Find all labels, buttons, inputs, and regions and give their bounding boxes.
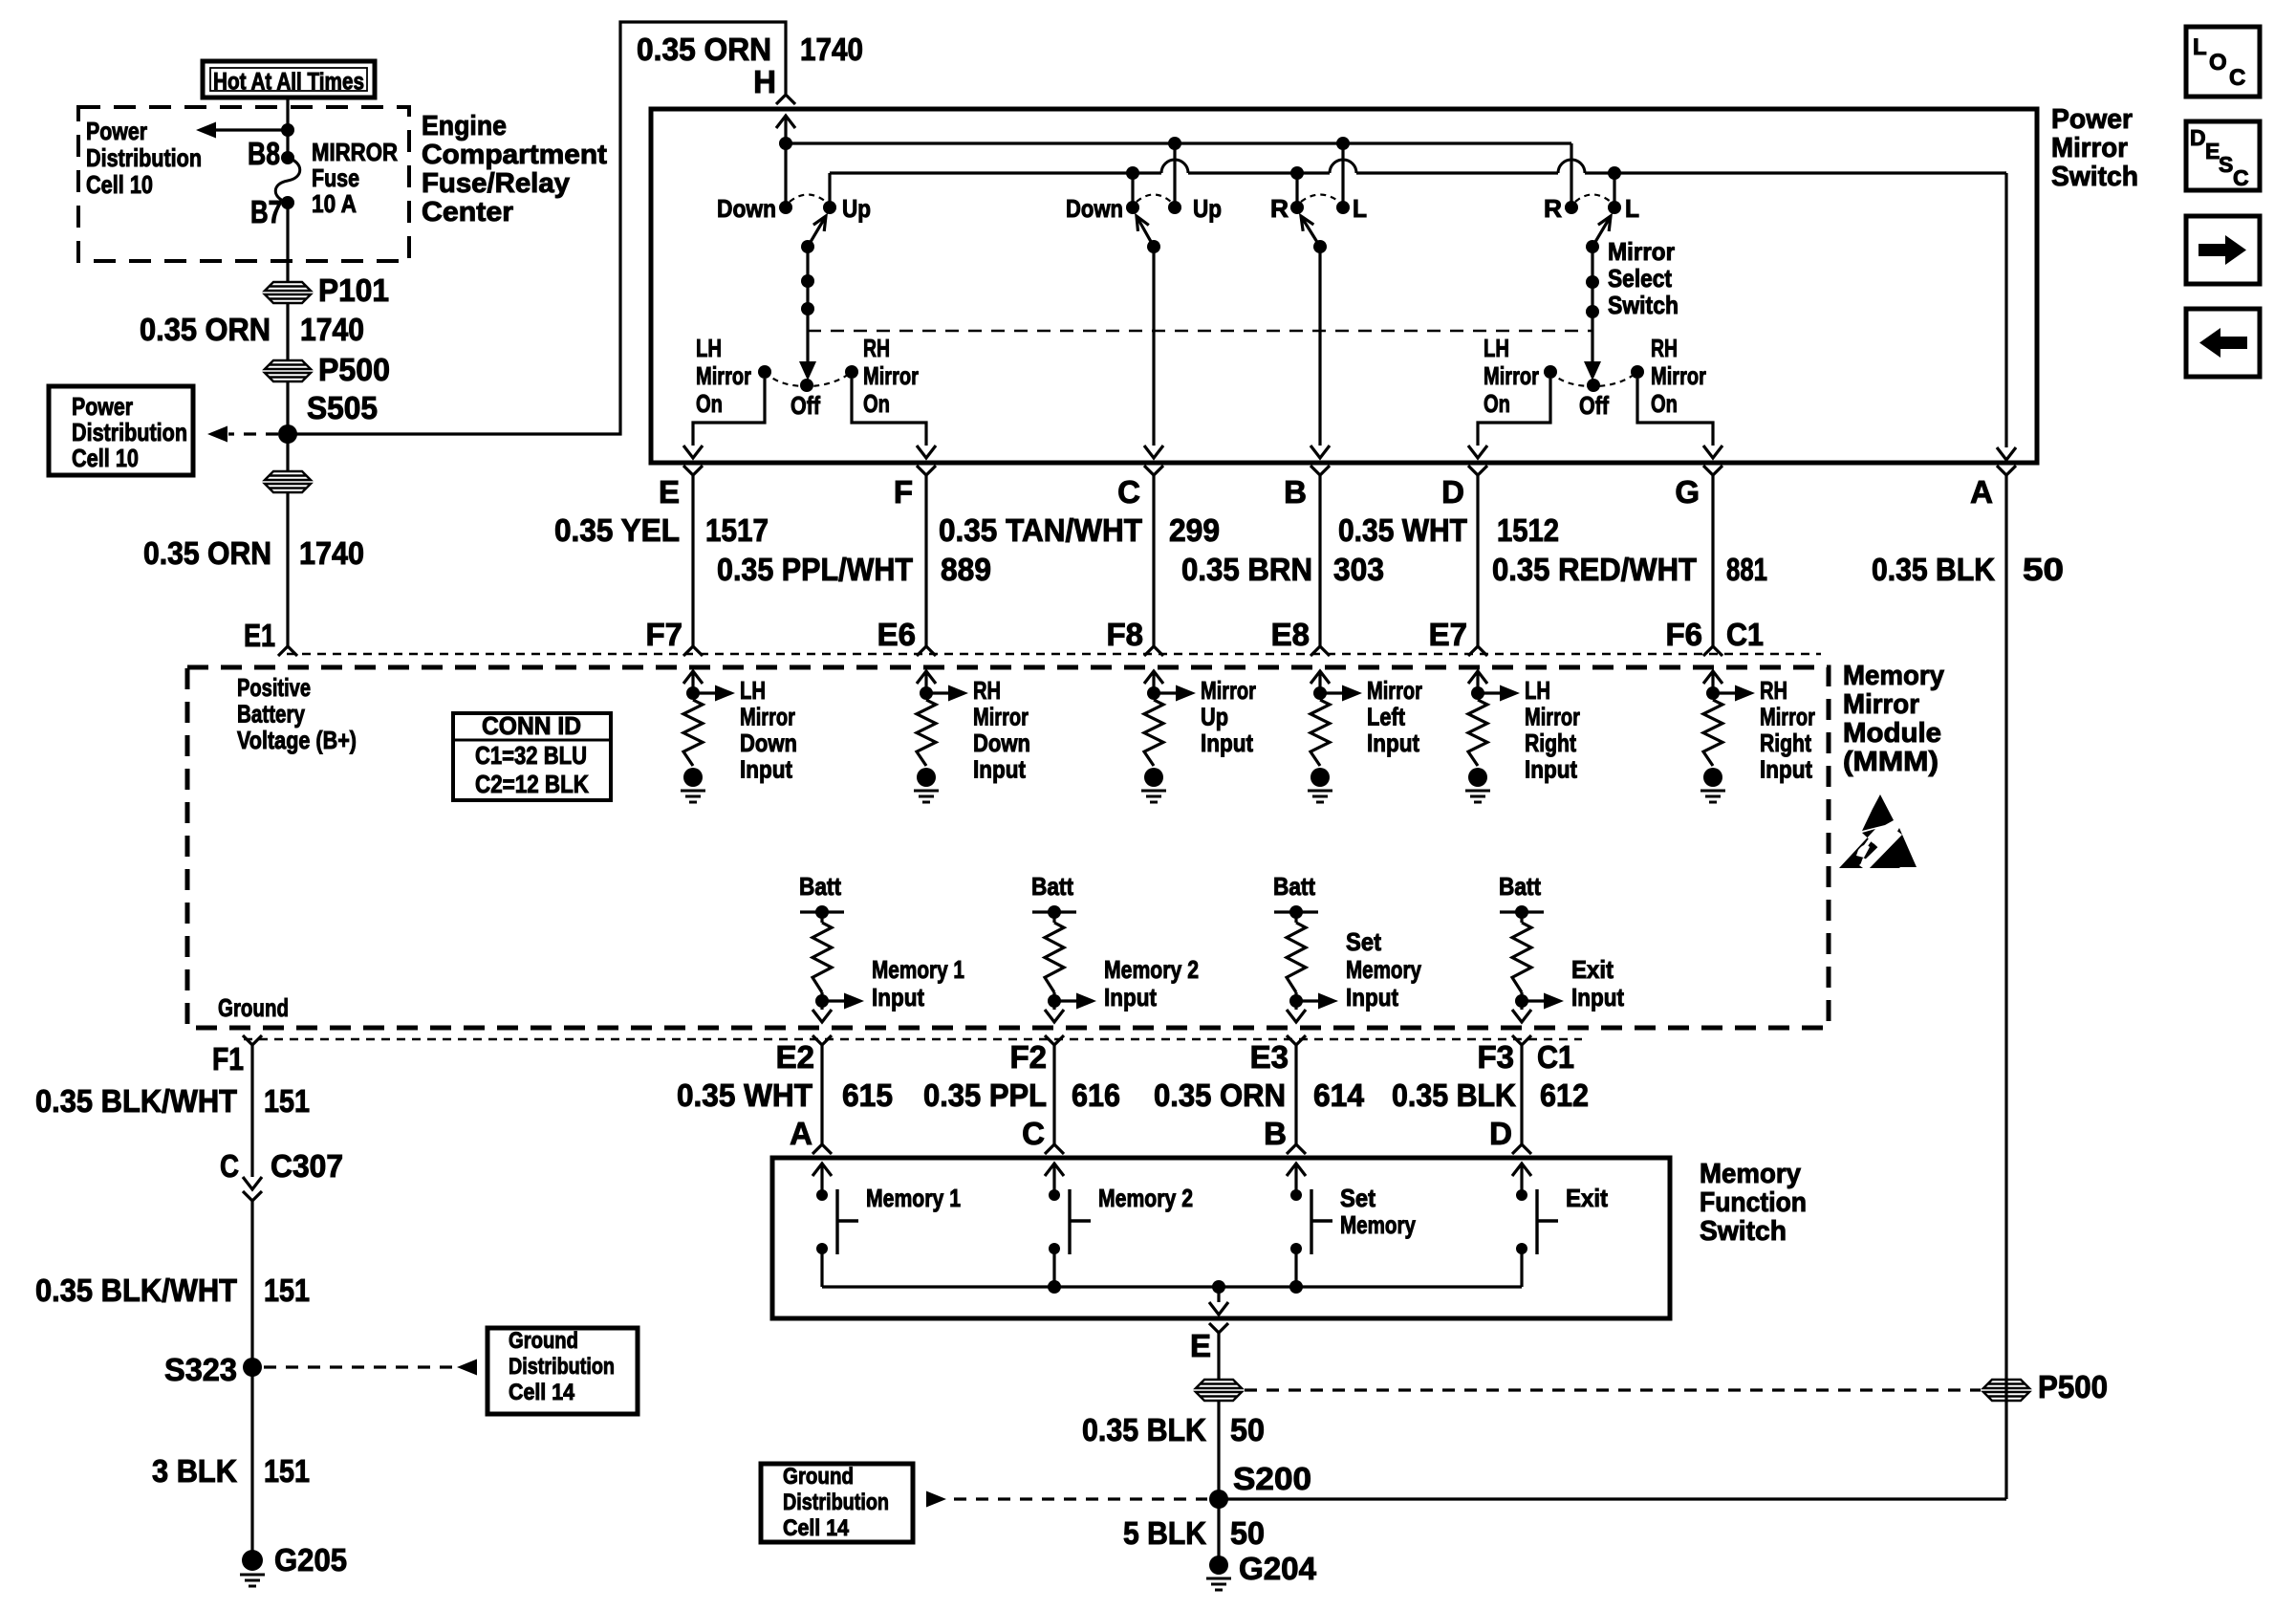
svg-text:RH: RH xyxy=(1760,676,1787,705)
wire wiper2 to pin C xyxy=(1152,247,1155,446)
ground G205 xyxy=(240,1550,265,1586)
pin C chevron xyxy=(1144,466,1163,475)
svg-text:R: R xyxy=(1270,194,1289,223)
input LH Mirror Down Input xyxy=(683,671,703,684)
svg-text:612: 612 xyxy=(1540,1077,1589,1113)
LOC nav box xyxy=(2186,27,2260,97)
pin G chevron xyxy=(1703,466,1722,475)
svg-text:C1=32 BLU: C1=32 BLU xyxy=(475,741,587,770)
dashed wire box to S200 xyxy=(954,1497,1207,1500)
svg-text:On: On xyxy=(1484,389,1510,418)
wire rail1 to L contact (B pair) xyxy=(1341,143,1344,207)
svg-text:1740: 1740 xyxy=(300,312,364,347)
svg-text:E: E xyxy=(1190,1328,1211,1363)
wire pin C to MMM xyxy=(1152,475,1155,646)
svg-text:C1: C1 xyxy=(1537,1039,1574,1075)
svg-text:0.35 BLK: 0.35 BLK xyxy=(1872,552,1995,587)
svg-text:Left: Left xyxy=(1367,703,1405,731)
svg-text:Mirror: Mirror xyxy=(1367,676,1422,705)
svg-text:50: 50 xyxy=(2023,552,2064,587)
fuse MIRROR 10A xyxy=(275,158,300,203)
junction H rail xyxy=(779,137,792,150)
svg-text:On: On xyxy=(863,389,890,418)
svg-text:Batt: Batt xyxy=(1499,872,1541,901)
svg-text:616: 616 xyxy=(1072,1077,1120,1113)
svg-text:Cell 10: Cell 10 xyxy=(86,170,153,199)
svg-text:303: 303 xyxy=(1333,552,1384,587)
connector P101 xyxy=(265,282,311,303)
splice S323 xyxy=(243,1358,262,1377)
internal ground (RH Mirror Down Input) xyxy=(914,768,939,802)
svg-text:D: D xyxy=(2190,125,2206,150)
wire from Hot At All Times to fuse B8 xyxy=(286,98,289,158)
svg-text:O: O xyxy=(2209,50,2227,76)
svg-text:Input: Input xyxy=(1367,729,1419,757)
svg-text:Memory 1: Memory 1 xyxy=(866,1184,961,1212)
svg-text:Input: Input xyxy=(1346,983,1398,1012)
svg-text:Distribution: Distribution xyxy=(72,418,187,446)
svg-text:Ground: Ground xyxy=(509,1328,578,1354)
pushbutton Memory 2 xyxy=(1045,1164,1064,1176)
svg-text:Cell 14: Cell 14 xyxy=(783,1515,850,1541)
svg-text:Mirror: Mirror xyxy=(2051,133,2128,163)
svg-text:RH: RH xyxy=(1651,334,1678,362)
wire E3 to B xyxy=(1294,1045,1297,1144)
svg-text:C: C xyxy=(2229,65,2245,91)
svg-text:Switch: Switch xyxy=(1608,291,1679,319)
contact R3 xyxy=(1290,201,1304,214)
arrow from Ground Distribution box (right) xyxy=(926,1491,946,1508)
svg-text:P500: P500 xyxy=(2038,1369,2108,1404)
contact Up2 xyxy=(1168,201,1181,214)
svg-text:0.35 BLK: 0.35 BLK xyxy=(1082,1412,1206,1447)
svg-text:Input: Input xyxy=(973,755,1026,784)
terminal B7 xyxy=(281,196,294,209)
wire C307 to S323 xyxy=(250,1201,253,1367)
svg-text:50: 50 xyxy=(1230,1515,1265,1551)
wiper arrow to Off (1) xyxy=(799,361,816,381)
arrow into pin D xyxy=(1468,446,1487,458)
svg-text:MIRROR: MIRROR xyxy=(312,138,398,166)
pin F2 chevron xyxy=(1045,1035,1064,1045)
svg-text:Power: Power xyxy=(86,117,147,145)
svg-text:Distribution: Distribution xyxy=(509,1354,615,1380)
svg-text:Module: Module xyxy=(1843,718,1941,749)
ground G204 xyxy=(1206,1556,1231,1590)
svg-text:614: 614 xyxy=(1313,1077,1365,1113)
svg-text:Up: Up xyxy=(1193,194,1222,223)
pin F3 chevron xyxy=(1512,1035,1531,1045)
hop over vertical at 1229 xyxy=(1161,160,1188,173)
svg-text:0.35 BLK/WHT: 0.35 BLK/WHT xyxy=(35,1083,237,1119)
inline connector C307 xyxy=(243,1177,262,1189)
svg-text:Function: Function xyxy=(1700,1187,1807,1218)
internal ground (Mirror Left Input) xyxy=(1308,768,1332,802)
wire 0.35 ORN 1740 (P101-P500) xyxy=(286,303,289,360)
svg-text:Off: Off xyxy=(791,391,820,420)
svg-text:Mirror: Mirror xyxy=(1608,237,1675,266)
svg-text:10 A: 10 A xyxy=(312,189,357,218)
dashed wire to P500 splice reference xyxy=(1245,1388,1981,1391)
svg-text:0.35 WHT: 0.35 WHT xyxy=(677,1077,812,1113)
svg-text:Voltage (B+): Voltage (B+) xyxy=(237,726,357,754)
svg-text:E7: E7 xyxy=(1429,617,1467,652)
wiper arm 3 xyxy=(1301,216,1320,247)
svg-text:G204: G204 xyxy=(1239,1551,1317,1586)
svg-text:LH: LH xyxy=(1484,334,1509,362)
input Mirror Left Input xyxy=(1310,671,1330,684)
dashed wire S323 to Ground Distribution Cell 14 xyxy=(264,1365,453,1368)
svg-text:1512: 1512 xyxy=(1497,512,1559,548)
pin F1 chevron xyxy=(243,1035,262,1045)
contact Down1 xyxy=(779,201,792,214)
wiper arrow to Off (2) xyxy=(1584,361,1601,381)
wire rail2 down to pin A xyxy=(2004,173,2007,447)
contact Off (2) xyxy=(1587,379,1600,392)
svg-text:Down: Down xyxy=(717,194,776,223)
wiper arm 4 (mirror select) xyxy=(1592,216,1611,247)
wire rail1 down to R contact of mirror select xyxy=(1570,143,1572,207)
common bus of memory function switch xyxy=(822,1285,1522,1288)
svg-text:F3: F3 xyxy=(1477,1039,1514,1075)
junction rail2 to Down2 xyxy=(1126,166,1139,180)
svg-text:151: 151 xyxy=(264,1083,310,1119)
svg-text:F1: F1 xyxy=(212,1041,244,1077)
svg-text:Mirror: Mirror xyxy=(1201,676,1256,705)
MMM connector line (bottom) xyxy=(244,1038,1582,1040)
wire P500 to S505 xyxy=(286,381,289,471)
svg-text:R: R xyxy=(1544,194,1562,223)
svg-text:Batt: Batt xyxy=(1273,872,1315,901)
junction rail2 to R3 xyxy=(1290,166,1304,180)
wire S505 up and over to pin H xyxy=(288,22,786,434)
svg-text:0.35 ORN: 0.35 ORN xyxy=(1154,1077,1286,1113)
junction rail2 to L4 xyxy=(1608,166,1621,180)
pin F8 chevron xyxy=(1144,646,1163,656)
svg-text:Set: Set xyxy=(1346,927,1381,956)
svg-text:D: D xyxy=(1441,474,1464,510)
svg-text:Power: Power xyxy=(2051,104,2133,135)
pin C chevron xyxy=(1045,1144,1064,1154)
svg-text:B8: B8 xyxy=(248,136,280,171)
wire F2 to C xyxy=(1052,1045,1055,1144)
wiper arm 1 xyxy=(808,216,826,247)
pin E chevron xyxy=(683,466,703,475)
svg-text:Power: Power xyxy=(72,392,133,421)
svg-text:CONN ID: CONN ID xyxy=(482,711,581,740)
svg-text:Switch: Switch xyxy=(1700,1216,1787,1247)
svg-text:Hot At All Times: Hot At All Times xyxy=(213,69,364,96)
pin E8 chevron xyxy=(1310,646,1330,656)
svg-text:Input: Input xyxy=(1525,755,1577,784)
svg-text:Up: Up xyxy=(1201,703,1228,731)
svg-text:C: C xyxy=(1022,1116,1045,1151)
pin E7 chevron xyxy=(1468,646,1487,656)
svg-text:C: C xyxy=(220,1148,239,1184)
svg-text:Mirror: Mirror xyxy=(1760,703,1815,731)
connector P500 (on E wire) xyxy=(1196,1380,1242,1401)
arrow into pin C xyxy=(1144,446,1163,458)
wire pin D to MMM xyxy=(1476,475,1479,646)
svg-text:Cell 10: Cell 10 xyxy=(72,444,139,472)
svg-text:RH: RH xyxy=(863,334,890,362)
splice S200 xyxy=(1209,1490,1228,1509)
svg-text:LH: LH xyxy=(740,676,766,705)
svg-text:881: 881 xyxy=(1726,552,1767,587)
svg-text:F2: F2 xyxy=(1009,1039,1047,1075)
wire LH1 to pin E xyxy=(693,379,765,446)
svg-text:Mirror: Mirror xyxy=(863,361,919,390)
contact R4 xyxy=(1565,201,1578,214)
box Ground Distribution Cell 14 (right) xyxy=(761,1464,913,1542)
ESD sensitive device symbol xyxy=(1839,794,1917,871)
pin H feed arrow xyxy=(776,116,795,128)
svg-text:Memory: Memory xyxy=(1843,661,1944,691)
svg-text:Down: Down xyxy=(1066,194,1123,223)
internal ground (Mirror Up Input) xyxy=(1141,768,1166,802)
wire RH1 to pin F xyxy=(852,379,926,446)
svg-text:S505: S505 xyxy=(307,390,378,425)
wire rail2 to Up1 contact xyxy=(828,173,831,207)
pin B chevron xyxy=(1310,466,1330,475)
pin E6 chevron xyxy=(917,646,936,656)
pushbutton Set Memory xyxy=(1287,1164,1306,1176)
svg-text:E2: E2 xyxy=(776,1039,814,1075)
svg-text:Center: Center xyxy=(422,197,513,228)
svg-text:Mirror: Mirror xyxy=(1484,361,1539,390)
svg-text:F7: F7 xyxy=(645,617,682,652)
svg-text:0.35 ORN: 0.35 ORN xyxy=(637,32,771,67)
svg-text:E8: E8 xyxy=(1271,617,1310,652)
wire pin E to MMM xyxy=(691,475,694,646)
pin F6 chevron xyxy=(1703,646,1722,656)
internal ground (RH Mirror Right Input) xyxy=(1700,768,1725,802)
wire pin B to MMM xyxy=(1318,475,1321,646)
svg-text:5 BLK: 5 BLK xyxy=(1123,1515,1206,1551)
Power Mirror Switch box xyxy=(651,109,2037,463)
splice S505 xyxy=(278,424,297,444)
junction rail1 to Up2 xyxy=(1168,137,1181,150)
CONN ID table xyxy=(453,713,611,800)
arrow to Power Distribution Cell 10 box xyxy=(207,426,227,443)
svg-text:0.35 BLK/WHT: 0.35 BLK/WHT xyxy=(35,1273,237,1308)
Memory Mirror Module box xyxy=(187,667,1829,1028)
svg-text:Mirror: Mirror xyxy=(696,361,751,390)
svg-text:Compartment: Compartment xyxy=(422,140,607,170)
svg-text:0.35 BLK: 0.35 BLK xyxy=(1392,1077,1516,1113)
pin H chevron xyxy=(776,95,795,104)
input RH Mirror Right Input xyxy=(1703,671,1722,684)
svg-text:1740: 1740 xyxy=(299,535,364,571)
svg-text:615: 615 xyxy=(842,1077,893,1113)
wire pin G to MMM xyxy=(1711,475,1714,646)
svg-text:Mirror: Mirror xyxy=(1651,361,1706,390)
svg-text:Positive: Positive xyxy=(237,673,311,702)
arrow into pin G xyxy=(1703,446,1722,458)
contact L3 xyxy=(1336,201,1350,214)
svg-text:0.35 PPL/WHT: 0.35 PPL/WHT xyxy=(717,552,913,587)
svg-text:Memory: Memory xyxy=(1346,955,1421,984)
wire F1 0.35 BLK/WHT 151 xyxy=(250,1045,253,1177)
wire rail1 to Down1 xyxy=(784,143,787,207)
svg-text:LH: LH xyxy=(1525,676,1550,705)
svg-text:151: 151 xyxy=(264,1453,310,1489)
svg-text:Set: Set xyxy=(1340,1184,1375,1212)
DESC nav box xyxy=(2186,121,2260,190)
svg-text:299: 299 xyxy=(1169,512,1220,548)
svg-text:Input: Input xyxy=(1760,755,1812,784)
svg-text:151: 151 xyxy=(264,1273,310,1308)
svg-text:Right: Right xyxy=(1525,729,1576,757)
wire pin A 0.35 BLK 50 down right side xyxy=(2004,475,2007,1499)
svg-text:S323: S323 xyxy=(164,1352,237,1387)
mechanical link dashed line xyxy=(808,330,1592,332)
svg-text:RH: RH xyxy=(973,676,1001,705)
svg-text:On: On xyxy=(1651,389,1678,418)
svg-text:1517: 1517 xyxy=(705,512,769,548)
svg-text:On: On xyxy=(696,389,723,418)
svg-text:A: A xyxy=(790,1116,812,1151)
pin A chevron xyxy=(812,1144,832,1154)
arrow into pin E (out) xyxy=(1209,1302,1228,1315)
svg-text:889: 889 xyxy=(941,552,991,587)
wire A joins S200 xyxy=(1219,1497,2006,1500)
svg-text:Exit: Exit xyxy=(1566,1184,1608,1212)
svg-text:Exit: Exit xyxy=(1571,955,1614,984)
arrow into pin A xyxy=(1997,447,2016,460)
wire to power distribution arrow xyxy=(215,128,288,131)
svg-text:C307: C307 xyxy=(271,1148,343,1184)
svg-text:3 BLK: 3 BLK xyxy=(152,1453,237,1489)
pin F chevron xyxy=(917,466,936,475)
svg-text:0.35 WHT: 0.35 WHT xyxy=(1338,512,1467,548)
svg-text:Mirror: Mirror xyxy=(973,703,1029,731)
dashed wire S505 to Power Distribution Cell 10 xyxy=(228,432,278,435)
wire S200 to G204 5 BLK 50 xyxy=(1217,1499,1220,1556)
svg-text:H: H xyxy=(753,64,776,99)
svg-text:G: G xyxy=(1675,474,1700,510)
svg-text:Memory: Memory xyxy=(1700,1159,1801,1189)
svg-text:Ground: Ground xyxy=(783,1464,854,1490)
svg-text:B7: B7 xyxy=(250,194,282,229)
svg-text:0.35 ORN: 0.35 ORN xyxy=(140,312,271,347)
terminal B8 xyxy=(281,151,294,164)
svg-text:E: E xyxy=(659,474,680,510)
connector P500 (lower) xyxy=(265,471,311,492)
wire LH2 to pin D xyxy=(1478,379,1550,446)
svg-text:Memory: Memory xyxy=(1340,1210,1416,1239)
wire bus to pin E xyxy=(1217,1287,1220,1302)
svg-text:Engine: Engine xyxy=(422,111,507,141)
pushbutton Exit xyxy=(1512,1164,1531,1176)
box Ground Distribution Cell 14 (left) xyxy=(487,1328,638,1414)
svg-text:Memory 2: Memory 2 xyxy=(1104,955,1199,984)
contact RH Mirror On (1) xyxy=(845,365,858,379)
svg-text:0.35 ORN: 0.35 ORN xyxy=(143,535,271,571)
arrow at Ground Distribution box xyxy=(457,1360,477,1376)
svg-text:(MMM): (MMM) xyxy=(1843,747,1939,777)
svg-text:Input: Input xyxy=(1571,983,1624,1012)
contact RH Mirror On (2) xyxy=(1631,365,1644,379)
svg-text:C2=12 BLK: C2=12 BLK xyxy=(475,770,589,798)
svg-text:1740: 1740 xyxy=(800,32,863,67)
svg-text:0.35 PPL: 0.35 PPL xyxy=(923,1077,1047,1113)
Memory Function Switch box xyxy=(772,1158,1670,1318)
svg-text:L: L xyxy=(1625,194,1639,223)
next-page arrow box xyxy=(2186,216,2260,284)
wire E2 to A xyxy=(820,1045,823,1144)
input RH Mirror Down Input xyxy=(917,671,936,684)
wire pin E to P500 xyxy=(1217,1333,1220,1380)
pushbutton Memory 1 xyxy=(812,1164,832,1176)
svg-text:S: S xyxy=(2219,152,2233,177)
svg-text:Switch: Switch xyxy=(2051,162,2138,192)
svg-text:P500: P500 xyxy=(318,352,390,387)
svg-text:Down: Down xyxy=(740,729,797,757)
wire rail2 to R contact (B pair) xyxy=(1295,173,1298,207)
junction in fuse center xyxy=(281,123,294,137)
svg-text:Input: Input xyxy=(740,755,792,784)
hop over vertical at 1405 xyxy=(1330,160,1356,173)
junction rail1 to L3 xyxy=(1336,137,1350,150)
svg-text:Off: Off xyxy=(1579,391,1609,420)
pin E chevron (memory switch) xyxy=(1209,1323,1228,1333)
hop over vertical at 1644 xyxy=(1558,160,1585,173)
contact LH Mirror On (2) xyxy=(1544,365,1557,379)
svg-text:0.35 TAN/WHT: 0.35 TAN/WHT xyxy=(939,512,1142,548)
wire B7 to P101 xyxy=(286,203,289,282)
pin A chevron xyxy=(1997,466,2016,475)
svg-text:A: A xyxy=(1970,474,1993,510)
svg-text:Mirror: Mirror xyxy=(1525,703,1580,731)
wire rail1 to Up contact (C pair) xyxy=(1173,143,1176,207)
svg-text:E6: E6 xyxy=(877,617,916,652)
box Power Distribution Cell 10 xyxy=(49,386,193,475)
wiper arm 2 xyxy=(1137,216,1154,247)
wire RH2 to pin G xyxy=(1637,379,1713,446)
wire S323 to G205 3 BLK 151 xyxy=(250,1367,253,1552)
svg-text:F6: F6 xyxy=(1665,617,1702,652)
pin E2 chevron xyxy=(812,1035,832,1045)
svg-text:L: L xyxy=(2193,34,2207,60)
svg-text:0.35 BRN: 0.35 BRN xyxy=(1181,552,1312,587)
svg-text:50: 50 xyxy=(1230,1412,1265,1447)
svg-text:Ground: Ground xyxy=(218,993,289,1022)
svg-text:0.35 RED/WHT: 0.35 RED/WHT xyxy=(1492,552,1697,587)
svg-text:G205: G205 xyxy=(274,1542,347,1577)
svg-text:Batt: Batt xyxy=(799,872,841,901)
pin D chevron xyxy=(1512,1144,1531,1154)
contact LH Mirror On (1) xyxy=(758,365,771,379)
arrow into pin F xyxy=(917,446,936,458)
svg-text:Up: Up xyxy=(842,194,871,223)
svg-text:F: F xyxy=(894,474,913,510)
arrow into pin E xyxy=(683,446,703,458)
wire F3 to D xyxy=(1520,1045,1523,1144)
connector P500 xyxy=(265,360,311,381)
svg-text:D: D xyxy=(1489,1116,1512,1151)
pin F7 chevron xyxy=(683,646,703,656)
svg-text:Select: Select xyxy=(1608,264,1672,293)
arrow to Power Distribution Cell 10 xyxy=(196,122,216,139)
pin E3 chevron xyxy=(1287,1035,1306,1045)
contact Down2 xyxy=(1126,201,1139,214)
svg-text:L: L xyxy=(1353,194,1367,223)
internal ground (LH Mirror Down Input) xyxy=(681,768,705,802)
svg-text:B: B xyxy=(1264,1116,1287,1151)
svg-text:Input: Input xyxy=(1201,729,1253,757)
svg-text:LH: LH xyxy=(696,334,722,362)
